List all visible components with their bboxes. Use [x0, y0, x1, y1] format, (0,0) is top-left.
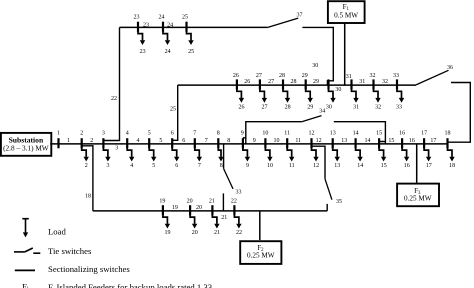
svg-text:25: 25 [170, 106, 176, 112]
wire from tie 36 to bus 18 [448, 83, 471, 143]
svg-text:21: 21 [209, 199, 215, 205]
svg-text:3: 3 [115, 145, 118, 151]
bus 1 tick [57, 138, 59, 148]
svg-text:23: 23 [134, 14, 140, 20]
wire F1 to bus30-31 segment [344, 23, 346, 85]
bus 3 tick [102, 138, 104, 148]
load 32 [374, 85, 381, 103]
feeder F2 box [240, 241, 281, 264]
bus 21 tick [211, 205, 213, 215]
svg-text:8: 8 [217, 131, 220, 137]
bus 31 tick [350, 79, 352, 89]
svg-text:8: 8 [227, 138, 230, 144]
legend load symbol [22, 219, 29, 238]
svg-text:17: 17 [421, 131, 427, 137]
svg-text:15: 15 [381, 163, 387, 169]
bus 7 tick [194, 138, 196, 148]
load 27 [260, 85, 267, 103]
bus 15 tick [378, 138, 380, 148]
svg-text:8: 8 [220, 163, 223, 169]
svg-text:21: 21 [214, 230, 220, 236]
svg-text:7: 7 [205, 138, 208, 144]
svg-text:12: 12 [309, 131, 315, 137]
bus 26 tick [236, 79, 238, 89]
svg-text:10: 10 [267, 163, 273, 169]
load 21 [212, 211, 219, 229]
load 12 [312, 144, 319, 162]
svg-text:29: 29 [302, 73, 308, 79]
load 17 [424, 144, 431, 162]
svg-text:18: 18 [445, 131, 451, 137]
wire F3 riser [416, 144, 418, 183]
svg-text:11: 11 [295, 138, 301, 144]
svg-text:9: 9 [246, 163, 249, 169]
tie switch 36 blade [416, 70, 449, 85]
svg-text:(2.8 – 3.1) MW: (2.8 – 3.1) MW [3, 144, 49, 153]
svg-text:4: 4 [137, 138, 140, 144]
svg-text:34: 34 [319, 109, 325, 115]
svg-text:5: 5 [159, 138, 162, 144]
svg-text:25: 25 [182, 14, 188, 20]
load 26 [237, 85, 244, 103]
load 20 [190, 211, 197, 229]
tie switch 37 blade [268, 18, 298, 27]
load 8 [218, 144, 223, 162]
bus 30 tick [327, 79, 329, 89]
svg-text:2: 2 [80, 131, 83, 137]
svg-text:26: 26 [244, 79, 250, 85]
svg-text:25: 25 [188, 49, 194, 55]
svg-text:31: 31 [353, 104, 359, 110]
bus 14 tick [355, 138, 357, 148]
svg-text:1: 1 [67, 138, 70, 144]
bus 9 tick [242, 138, 244, 148]
svg-text:6: 6 [175, 163, 178, 169]
svg-text:13: 13 [341, 138, 347, 144]
svg-text:30: 30 [312, 63, 318, 69]
svg-text:12: 12 [313, 163, 319, 169]
svg-text:Sectionalizing switches: Sectionalizing switches [48, 264, 130, 274]
feeder F3 box [397, 184, 439, 207]
svg-text:22: 22 [231, 199, 237, 205]
wire lower lateral bus19-22 [93, 210, 327, 212]
legend sectionalizing switch symbol [15, 269, 35, 271]
svg-text:16: 16 [409, 138, 415, 144]
svg-text:9: 9 [253, 138, 256, 144]
load 18 [448, 144, 455, 162]
svg-text:26: 26 [233, 73, 239, 79]
svg-text:13: 13 [330, 131, 336, 137]
svg-text:33: 33 [393, 73, 399, 79]
bus 20 tick [189, 205, 191, 215]
bus 18 tick [446, 138, 448, 148]
svg-text:24: 24 [159, 14, 165, 20]
bus 17 tick [423, 138, 425, 148]
load 6 [172, 144, 179, 162]
wire branch 18: bus2 to bus19 riser [82, 146, 93, 211]
svg-text:32: 32 [382, 79, 388, 85]
load 19 [163, 211, 170, 229]
svg-text:17: 17 [426, 163, 432, 169]
svg-text:15: 15 [388, 138, 394, 144]
svg-text:19: 19 [165, 230, 171, 236]
bus 24 tick [162, 22, 164, 32]
svg-text:1: 1 [57, 131, 60, 137]
bus 19 tick [162, 205, 164, 215]
svg-text:27: 27 [262, 104, 268, 110]
svg-text:29: 29 [307, 104, 313, 110]
bus 10 tick [264, 138, 266, 148]
load 30 [329, 85, 336, 103]
svg-text:6: 6 [182, 138, 185, 144]
load 16 [402, 144, 409, 162]
svg-text:7: 7 [193, 131, 196, 137]
svg-text:19: 19 [172, 205, 178, 211]
svg-text:17: 17 [430, 138, 436, 144]
bus 6 tick [171, 138, 173, 148]
load 9 [243, 144, 250, 162]
svg-text:6: 6 [171, 131, 174, 137]
load 28 [283, 85, 290, 103]
tie switch 33 blade [224, 169, 233, 189]
wire branch 25: bus6 to bus26 riser [172, 85, 178, 140]
svg-text:2: 2 [85, 163, 88, 169]
svg-text:29: 29 [313, 79, 319, 85]
wire tie 34 path bus9 to bus15 [243, 122, 302, 144]
bus 2 tick [81, 138, 83, 148]
bus 16 tick [401, 138, 403, 148]
svg-text:24: 24 [167, 23, 173, 29]
svg-text:37: 37 [297, 13, 303, 19]
wire top lateral bus23-25 [120, 26, 268, 28]
svg-text:18: 18 [85, 194, 91, 200]
svg-text:26: 26 [239, 104, 245, 110]
bus 13 tick [332, 138, 334, 148]
svg-text:Fi: Fi [22, 282, 29, 288]
svg-text:32: 32 [370, 73, 376, 79]
svg-text:23: 23 [143, 23, 149, 29]
tie switch 34 blade [302, 116, 322, 122]
tie switch 35 blade [325, 179, 332, 200]
svg-text:0.25 MW: 0.25 MW [404, 195, 432, 203]
bus 27 tick [259, 79, 261, 89]
bus 12 tick [310, 138, 312, 148]
svg-text:4: 4 [126, 131, 129, 137]
svg-text:2: 2 [90, 138, 93, 144]
load 25 [187, 27, 194, 45]
load 14 [356, 144, 363, 162]
svg-text:F. Islanded Feeders for backup: F. Islanded Feeders for backup loads rat… [48, 282, 212, 288]
svg-text:21: 21 [221, 215, 227, 221]
bus 32 tick [372, 79, 374, 89]
svg-text:9: 9 [241, 131, 244, 137]
load 22 [234, 211, 241, 229]
load 15 [379, 144, 386, 162]
svg-text:13: 13 [334, 163, 340, 169]
svg-text:4: 4 [130, 163, 133, 169]
svg-text:3: 3 [102, 131, 105, 137]
bus 28 tick [282, 79, 284, 89]
bus 11 tick [286, 138, 288, 148]
svg-text:24: 24 [165, 49, 171, 55]
svg-text:27: 27 [268, 79, 274, 85]
svg-text:22: 22 [236, 230, 242, 236]
wire branch 22: bus3 to bus23 riser [103, 27, 119, 140]
bus 33 tick [396, 79, 398, 89]
load 13 [333, 144, 340, 162]
bus 29 tick [305, 79, 307, 89]
feeder F1 box [328, 1, 365, 23]
load 5 [149, 144, 156, 162]
wire tie 35 hook at bus 22 lateral end [326, 204, 328, 211]
svg-text:19: 19 [159, 199, 165, 205]
load 24 [163, 27, 170, 45]
wire tie 33 hook to bus 21 [222, 193, 224, 211]
load 4 [127, 144, 134, 162]
load 3 [103, 144, 110, 162]
svg-text:14: 14 [353, 131, 359, 137]
svg-text:5: 5 [148, 131, 151, 137]
load 7 [195, 144, 202, 162]
svg-text:28: 28 [279, 73, 285, 79]
load 33 [397, 85, 404, 103]
svg-text:14: 14 [365, 138, 371, 144]
bus 23 tick [137, 22, 139, 32]
svg-text:33: 33 [396, 104, 402, 110]
wire tie 34 right side to bus 15 [334, 122, 386, 144]
load 2 [82, 144, 89, 162]
svg-text:23: 23 [140, 49, 146, 55]
svg-text:11: 11 [284, 131, 290, 137]
svg-text:22: 22 [111, 96, 117, 102]
svg-text:Load: Load [48, 227, 67, 237]
svg-text:3: 3 [107, 163, 110, 169]
svg-text:20: 20 [192, 230, 198, 236]
svg-text:7: 7 [198, 163, 201, 169]
svg-text:10: 10 [274, 138, 280, 144]
load 23 [138, 27, 145, 45]
svg-text:27: 27 [256, 73, 262, 79]
bus 5 tick [148, 138, 150, 148]
svg-text:33: 33 [236, 190, 242, 196]
bus 25 tick [185, 22, 187, 32]
svg-text:0.5 MW: 0.5 MW [334, 11, 358, 19]
svg-text:30: 30 [335, 87, 341, 93]
svg-text:15: 15 [376, 131, 382, 137]
wire F2 riser [259, 211, 261, 240]
svg-text:32: 32 [375, 104, 381, 110]
wire tie 35 stem from bus 12 [312, 146, 326, 179]
wire lateral bus26-33 [178, 84, 416, 86]
wire tie 33 stem from bus 8 [223, 144, 225, 169]
bus 8 tick [217, 138, 219, 148]
svg-text:28: 28 [291, 79, 297, 85]
bus 22 tick [233, 205, 235, 215]
svg-text:14: 14 [357, 163, 363, 169]
load 31 [352, 85, 359, 103]
svg-text:20: 20 [187, 199, 193, 205]
svg-text:28: 28 [285, 104, 291, 110]
svg-text:16: 16 [399, 131, 405, 137]
svg-text:20: 20 [196, 205, 202, 211]
svg-text:16: 16 [404, 163, 410, 169]
load 11 [287, 144, 294, 162]
svg-text:5: 5 [152, 163, 155, 169]
svg-text:30: 30 [326, 104, 332, 110]
wire main feeder bus1-18 [50, 143, 447, 145]
svg-text:12: 12 [316, 138, 322, 144]
svg-text:11: 11 [289, 163, 295, 169]
substation box [1, 133, 51, 156]
svg-text:18: 18 [449, 163, 455, 169]
load 29 [306, 85, 313, 103]
load 10 [265, 144, 272, 162]
legend tie switch symbol [14, 248, 40, 253]
svg-text:10: 10 [262, 131, 268, 137]
svg-text:31: 31 [346, 74, 352, 80]
wire from tie 37 to bus 30 [302, 27, 333, 85]
bus 4 tick [126, 138, 128, 148]
svg-text:36: 36 [447, 65, 453, 71]
svg-text:31: 31 [359, 79, 365, 85]
svg-text:35: 35 [336, 199, 342, 205]
svg-text:Tie switches: Tie switches [48, 246, 92, 256]
svg-text:0.25 MW: 0.25 MW [247, 252, 275, 260]
